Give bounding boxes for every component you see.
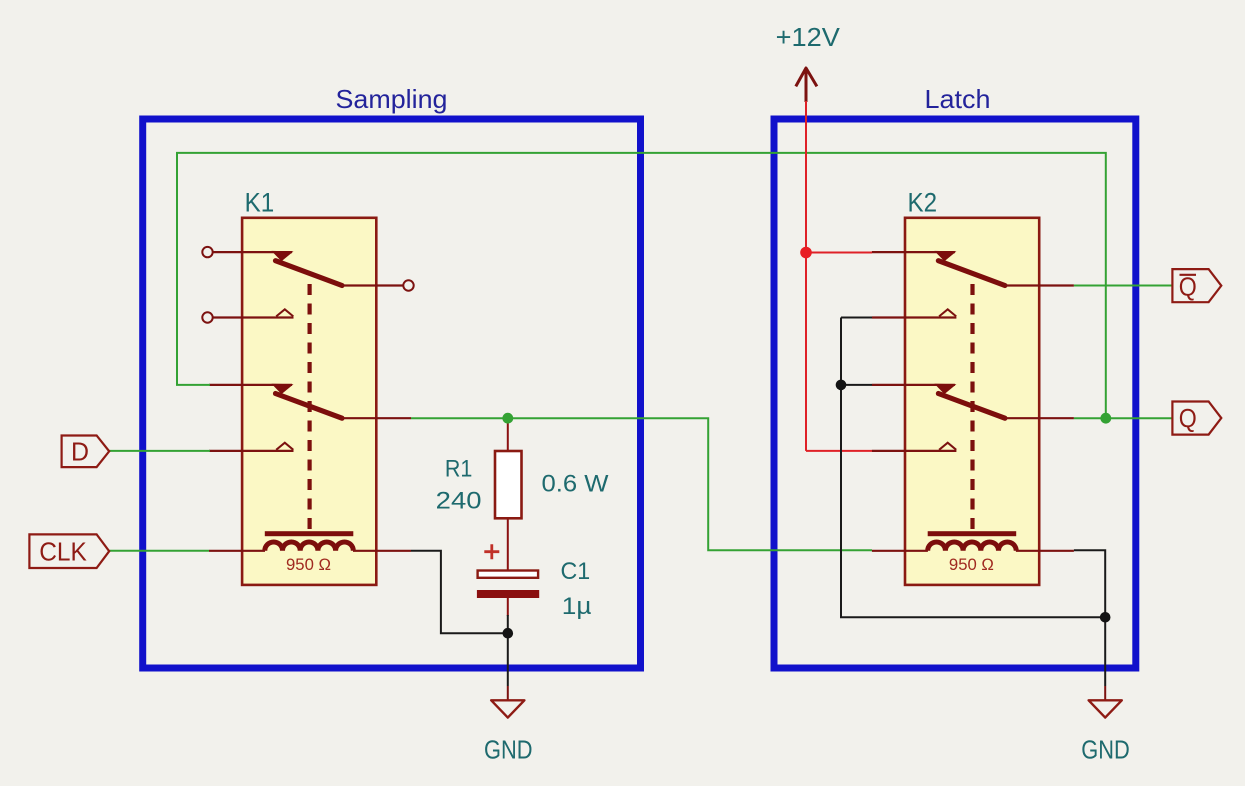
- svg-text:GND: GND: [484, 734, 533, 764]
- svg-text:Q: Q: [1179, 403, 1197, 433]
- svg-text:Q: Q: [1179, 272, 1197, 302]
- svg-text:GND: GND: [1081, 734, 1130, 764]
- svg-text:D: D: [71, 437, 89, 467]
- svg-text:+12V: +12V: [776, 22, 841, 52]
- svg-text:950 Ω: 950 Ω: [286, 556, 331, 574]
- svg-text:0.6 W: 0.6 W: [542, 470, 609, 497]
- svg-text:K2: K2: [908, 188, 938, 218]
- svg-text:C1: C1: [560, 558, 590, 585]
- svg-text:240: 240: [436, 488, 482, 515]
- svg-text:Latch: Latch: [925, 84, 991, 114]
- svg-text:K1: K1: [245, 188, 275, 218]
- svg-text:CLK: CLK: [39, 537, 87, 567]
- svg-text:1µ: 1µ: [562, 593, 592, 620]
- svg-text:R1: R1: [445, 456, 473, 483]
- svg-text:Sampling: Sampling: [336, 84, 448, 114]
